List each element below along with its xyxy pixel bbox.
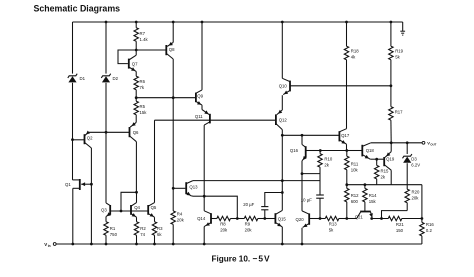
resistor R16 0.2 bbox=[421, 219, 423, 223]
resistor R17 bbox=[390, 86, 392, 107]
svg-text:R8: R8 bbox=[220, 222, 226, 227]
transistor Q9 (NPN) bbox=[201, 21, 204, 24]
transistor Q14 (NPN) bbox=[203, 196, 205, 211]
node: Q18 emitter / R15 / Q19 base bbox=[375, 158, 378, 161]
node: Q12 collector / Q17 base line bbox=[281, 134, 284, 137]
svg-text:Q10: Q10 bbox=[279, 84, 288, 89]
node: C2 bottom / Q20 base / R13 bbox=[319, 217, 322, 220]
wire: Q2 collector to Q1 gate and Vin rail bbox=[90, 148, 92, 244]
wire: base-collector tie loop (Q4 diode connection) bbox=[121, 192, 137, 211]
svg-text:R12: R12 bbox=[351, 193, 359, 198]
transistor Q10 (NPN) bbox=[281, 21, 284, 24]
svg-text:D3: D3 bbox=[411, 156, 417, 161]
resistor R12 600 bbox=[346, 185, 348, 189]
svg-text:Q11: Q11 bbox=[195, 114, 203, 119]
transistor Q15 (NPN) bbox=[274, 213, 276, 224]
svg-text:15k: 15k bbox=[369, 199, 377, 204]
node: Q16 emitter / R10 bottom / C2 top branch bbox=[301, 172, 304, 175]
transistor Q4 (NPN) bbox=[130, 205, 132, 215]
resistor R20 20k bbox=[405, 189, 409, 203]
terminal Vin bbox=[53, 243, 56, 246]
svg-text:Q18: Q18 bbox=[366, 148, 375, 153]
resistor R19 5k bbox=[390, 21, 393, 24]
node: D2 anode / Q2 emitter / Q6 base bbox=[105, 131, 108, 134]
wire: common base line Q3-Q4-Q5 bbox=[110, 210, 148, 212]
transistor Q2 (PNP) bbox=[73, 139, 85, 141]
node: R11 / R12 / current-limit line bbox=[345, 183, 348, 186]
svg-text:R17: R17 bbox=[395, 110, 403, 115]
svg-text:0.2: 0.2 bbox=[426, 228, 433, 233]
transistor Q8 (PNP) bbox=[172, 21, 175, 24]
wire: bottom Vin rail bbox=[56, 243, 422, 245]
svg-text:R3: R3 bbox=[157, 226, 163, 231]
transistor Q3 (NPN) bbox=[106, 203, 110, 206]
svg-text:R14: R14 bbox=[369, 193, 377, 198]
svg-text:20 µF: 20 µF bbox=[243, 202, 254, 207]
svg-text:Q5: Q5 bbox=[151, 205, 157, 210]
node: R7 / Q7 collector-base / Q8 base bbox=[135, 49, 138, 52]
svg-text:Q3: Q3 bbox=[101, 207, 107, 212]
transistor Q17 (NPN) bbox=[339, 129, 346, 132]
svg-text:20k: 20k bbox=[412, 196, 420, 201]
transistor Q1 (JFET) bbox=[73, 179, 80, 181]
svg-text:2k: 2k bbox=[381, 174, 386, 179]
resistor R2 74 bbox=[134, 222, 138, 236]
resistor R18 4k bbox=[345, 21, 348, 24]
resistor R3 6k bbox=[152, 222, 156, 236]
svg-text:R1: R1 bbox=[110, 226, 116, 231]
ground bbox=[402, 22, 404, 31]
svg-text:in: in bbox=[48, 244, 51, 248]
svg-text:5k: 5k bbox=[395, 55, 400, 60]
node: D3 tap bbox=[406, 141, 409, 144]
svg-text:Q21: Q21 bbox=[355, 215, 364, 220]
svg-text:10k: 10k bbox=[351, 168, 359, 173]
resistor R11 10k bbox=[346, 151, 348, 157]
svg-text:1.4k: 1.4k bbox=[140, 37, 149, 42]
svg-text:R7: R7 bbox=[140, 31, 146, 36]
wire: top ground rail bbox=[73, 21, 403, 23]
wire: current limit line R12-R14-R15-Q19c to R16 top bbox=[347, 184, 422, 186]
svg-text:OUT: OUT bbox=[430, 143, 436, 147]
svg-text:Q2: Q2 bbox=[87, 135, 93, 140]
svg-text:74: 74 bbox=[140, 232, 145, 237]
transistor Q12 (PNP) bbox=[277, 110, 283, 115]
svg-text:R4: R4 bbox=[177, 212, 183, 217]
svg-text:600: 600 bbox=[351, 199, 359, 204]
svg-text:D2: D2 bbox=[113, 76, 119, 81]
zener diode D3 6.2V bbox=[406, 143, 408, 154]
node: D1 anode / Q2 base / Q1 drain bbox=[71, 138, 74, 141]
transistor Q19 (PNP) bbox=[377, 158, 385, 160]
svg-text:6k: 6k bbox=[157, 232, 162, 237]
resistor R15 2k bbox=[376, 159, 378, 165]
svg-text:2k: 2k bbox=[324, 163, 329, 168]
node: Q18 collector / R17 bbox=[390, 141, 393, 144]
wire: line to Q17 base bbox=[282, 134, 339, 136]
node: R8/R9 junction bbox=[236, 217, 239, 220]
svg-text:R19: R19 bbox=[395, 49, 403, 54]
node: Q4/Q6 collectors bbox=[135, 191, 138, 194]
svg-text:R11: R11 bbox=[351, 162, 359, 167]
resistor R10 2k bbox=[319, 149, 322, 152]
svg-text:Q4: Q4 bbox=[134, 205, 140, 210]
resistor R7 1.4k bbox=[135, 21, 138, 24]
svg-text:Q15: Q15 bbox=[278, 216, 287, 221]
svg-text:Figure 10. −5V: Figure 10. −5V bbox=[212, 253, 271, 263]
transistor Q20 (NPN) bbox=[302, 211, 309, 214]
transistor Q7 (NPN diode-connected) bbox=[118, 50, 136, 64]
svg-text:4k: 4k bbox=[351, 55, 356, 60]
capacitor C1 20uF bbox=[265, 193, 283, 207]
node: Q17 emitter / Q16 base line / Q18 base / R11 bbox=[345, 149, 348, 152]
resistor R8 20k bbox=[217, 216, 231, 220]
wire: Q8 collector down through node A to Q13 base / R4 bbox=[172, 59, 174, 188]
wire: node A to Q9 base (crosses Q8 collector line) bbox=[136, 97, 196, 99]
zener diode D2 bbox=[105, 22, 107, 74]
svg-text:Q19: Q19 bbox=[386, 157, 395, 162]
node: R9 / C1 / Q15 base bbox=[263, 217, 266, 220]
resistor R5 15k bbox=[135, 98, 137, 102]
wire: loop from node to R8 right end bbox=[204, 196, 237, 218]
svg-text:750: 750 bbox=[110, 232, 118, 237]
svg-text:Schematic Diagrams: Schematic Diagrams bbox=[34, 4, 121, 14]
transistor Q6 (PNP) bbox=[130, 122, 136, 127]
svg-text:20k: 20k bbox=[220, 228, 228, 233]
wire: Q12 collector down to Q15 collector with taps bbox=[281, 130, 283, 211]
svg-text:R21: R21 bbox=[396, 222, 404, 227]
node: R21 / R16 / sense line bbox=[421, 217, 424, 220]
wire: node down to Q3 collector bbox=[105, 132, 107, 203]
node: Q11 collector / Q13 emitter / Q14 collector / R8 bbox=[203, 195, 206, 198]
svg-text:Q17: Q17 bbox=[341, 133, 350, 138]
svg-text:Q20: Q20 bbox=[296, 217, 305, 222]
svg-text:Q8: Q8 bbox=[169, 47, 175, 52]
transistor Q18 (NPN) bbox=[347, 150, 363, 152]
transistor Q5 (NPN) bbox=[147, 205, 149, 215]
svg-text:Q6: Q6 bbox=[133, 130, 139, 135]
transistor Q16 (NPN) bbox=[301, 135, 303, 144]
svg-text:R6: R6 bbox=[140, 79, 146, 84]
svg-text:Q14: Q14 bbox=[197, 216, 206, 221]
resistor R14 15k bbox=[364, 183, 367, 186]
node: R19 / Q10 base / R17 bbox=[390, 84, 393, 87]
svg-text:R5: R5 bbox=[140, 104, 146, 109]
wire: output line bbox=[371, 142, 422, 144]
svg-text:20k: 20k bbox=[245, 228, 253, 233]
resistor R13 5k bbox=[320, 218, 325, 220]
resistor R6 7k bbox=[134, 76, 138, 90]
capacitor C2 10uF bbox=[316, 194, 324, 196]
svg-text:R18: R18 bbox=[351, 49, 359, 54]
svg-text:20k: 20k bbox=[177, 218, 185, 223]
transistor Q21 (NPN, rotated) bbox=[360, 211, 371, 213]
svg-text:R10: R10 bbox=[324, 157, 332, 162]
zener diode D1 bbox=[72, 22, 74, 74]
wire: Q5 collector up to Q11/Q12 base line bbox=[154, 120, 156, 202]
svg-text:Q7: Q7 bbox=[132, 61, 138, 66]
resistor R9 20k bbox=[237, 218, 244, 220]
svg-text:5k: 5k bbox=[329, 227, 334, 232]
svg-text:Q9: Q9 bbox=[197, 94, 203, 99]
svg-text:Q1: Q1 bbox=[65, 182, 71, 187]
node A: R6/R5 junction feeding Q9 base bbox=[135, 96, 138, 99]
svg-text:15k: 15k bbox=[140, 110, 148, 115]
wire: Q10 base line to R19/R17 junction bbox=[290, 85, 391, 87]
svg-text:7k: 7k bbox=[140, 85, 145, 90]
svg-text:Q12: Q12 bbox=[279, 117, 288, 122]
svg-text:10 µF: 10 µF bbox=[301, 197, 312, 202]
svg-text:R15: R15 bbox=[381, 168, 389, 173]
resistor R21 150 bbox=[372, 218, 389, 220]
svg-text:Q16: Q16 bbox=[290, 148, 299, 153]
terminal VOUT bbox=[422, 141, 425, 144]
svg-text:R20: R20 bbox=[412, 190, 420, 195]
svg-text:D1: D1 bbox=[80, 76, 86, 81]
svg-text:Q13: Q13 bbox=[189, 185, 198, 190]
wire: R20 bottom jog to Q21 emitter node bbox=[382, 211, 408, 219]
transistor Q13 (NPN) bbox=[185, 182, 187, 194]
svg-text:R9: R9 bbox=[245, 222, 251, 227]
transistor Q11 (PNP) bbox=[202, 110, 209, 115]
resistor R4 20k bbox=[172, 188, 174, 211]
node: tap to C1 bbox=[281, 191, 284, 194]
svg-text:R13: R13 bbox=[329, 221, 337, 226]
svg-text:6.2V: 6.2V bbox=[411, 163, 420, 168]
svg-text:150: 150 bbox=[396, 228, 404, 233]
svg-text:R2: R2 bbox=[140, 226, 146, 231]
wire: Q13 collector line to compensation node bbox=[193, 180, 320, 182]
svg-text:R16: R16 bbox=[426, 222, 434, 227]
resistor R1 750 bbox=[104, 222, 108, 236]
